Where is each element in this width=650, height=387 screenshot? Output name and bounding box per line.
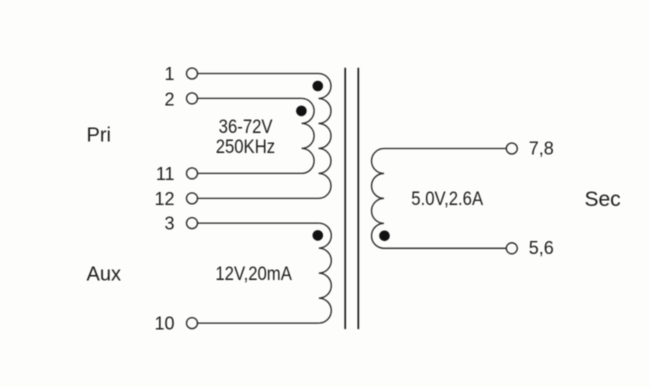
svg-text:250KHz: 250KHz <box>216 136 275 157</box>
svg-text:12V,20mA: 12V,20mA <box>215 263 292 284</box>
svg-text:10: 10 <box>154 314 174 334</box>
wire secondary winding to pins 5,6 <box>384 247 506 249</box>
svg-text:Sec: Sec <box>585 188 621 211</box>
terminal pin 3 <box>187 218 198 229</box>
svg-text:3: 3 <box>164 214 174 234</box>
svg-text:1: 1 <box>164 64 174 84</box>
terminal pin 11 <box>187 168 198 179</box>
terminal pin 10 <box>187 318 198 329</box>
primary winding B coil (pins 2-11) <box>302 98 315 173</box>
core line left <box>344 68 346 329</box>
terminal pins 7,8 <box>506 143 517 154</box>
polarity dot winding A (pin 1 end) <box>313 81 324 92</box>
wire primary winding A to pin 12 <box>198 197 319 199</box>
terminal pin 2 <box>187 93 198 104</box>
wire pin 3 to aux winding <box>198 222 319 224</box>
svg-text:5.0V,2.6A: 5.0V,2.6A <box>411 188 483 209</box>
wire pin 1 to primary winding A <box>198 73 319 75</box>
primary winding A coil (pins 1-12) <box>319 74 331 199</box>
svg-text:5,6: 5,6 <box>529 238 554 258</box>
svg-text:Aux: Aux <box>87 263 121 285</box>
polarity dot aux winding (pin 3 end) <box>313 230 324 241</box>
svg-text:36-72V: 36-72V <box>219 116 273 137</box>
svg-text:2: 2 <box>164 90 174 110</box>
wire pins 7,8 to secondary winding <box>384 148 506 150</box>
svg-text:11: 11 <box>156 164 175 184</box>
terminal pin 1 <box>187 68 198 79</box>
wire pin 2 to primary winding B <box>198 97 302 99</box>
wire primary winding B to pin 11 <box>198 172 302 174</box>
polarity dot winding B (pin 2 end) <box>296 106 307 117</box>
wire aux winding to pin 10 <box>198 322 319 324</box>
secondary winding coil (pins 7,8-5,6) <box>372 149 384 249</box>
terminal pins 5,6 <box>506 243 517 254</box>
core line right <box>357 68 359 329</box>
polarity dot secondary winding (pins 5,6 end) <box>379 231 390 242</box>
svg-text:Pri: Pri <box>87 125 111 147</box>
svg-text:12: 12 <box>154 189 174 209</box>
aux winding coil (pins 3-10) <box>319 223 332 323</box>
terminal pin 12 <box>187 193 198 204</box>
svg-text:7,8: 7,8 <box>529 139 554 159</box>
